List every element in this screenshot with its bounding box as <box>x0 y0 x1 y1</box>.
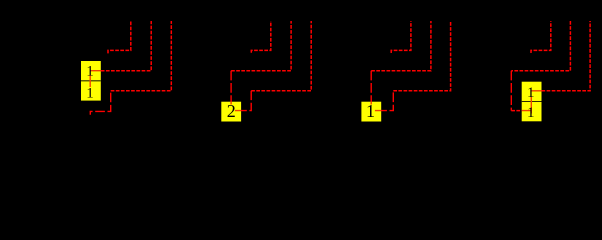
svg-text:2: 2 <box>227 101 236 121</box>
svg-text:1: 1 <box>366 101 375 121</box>
svg-text:1: 1 <box>86 85 94 101</box>
svg-text:1: 1 <box>86 64 94 80</box>
svg-text:1: 1 <box>527 105 535 121</box>
svg-text:1: 1 <box>527 85 535 101</box>
